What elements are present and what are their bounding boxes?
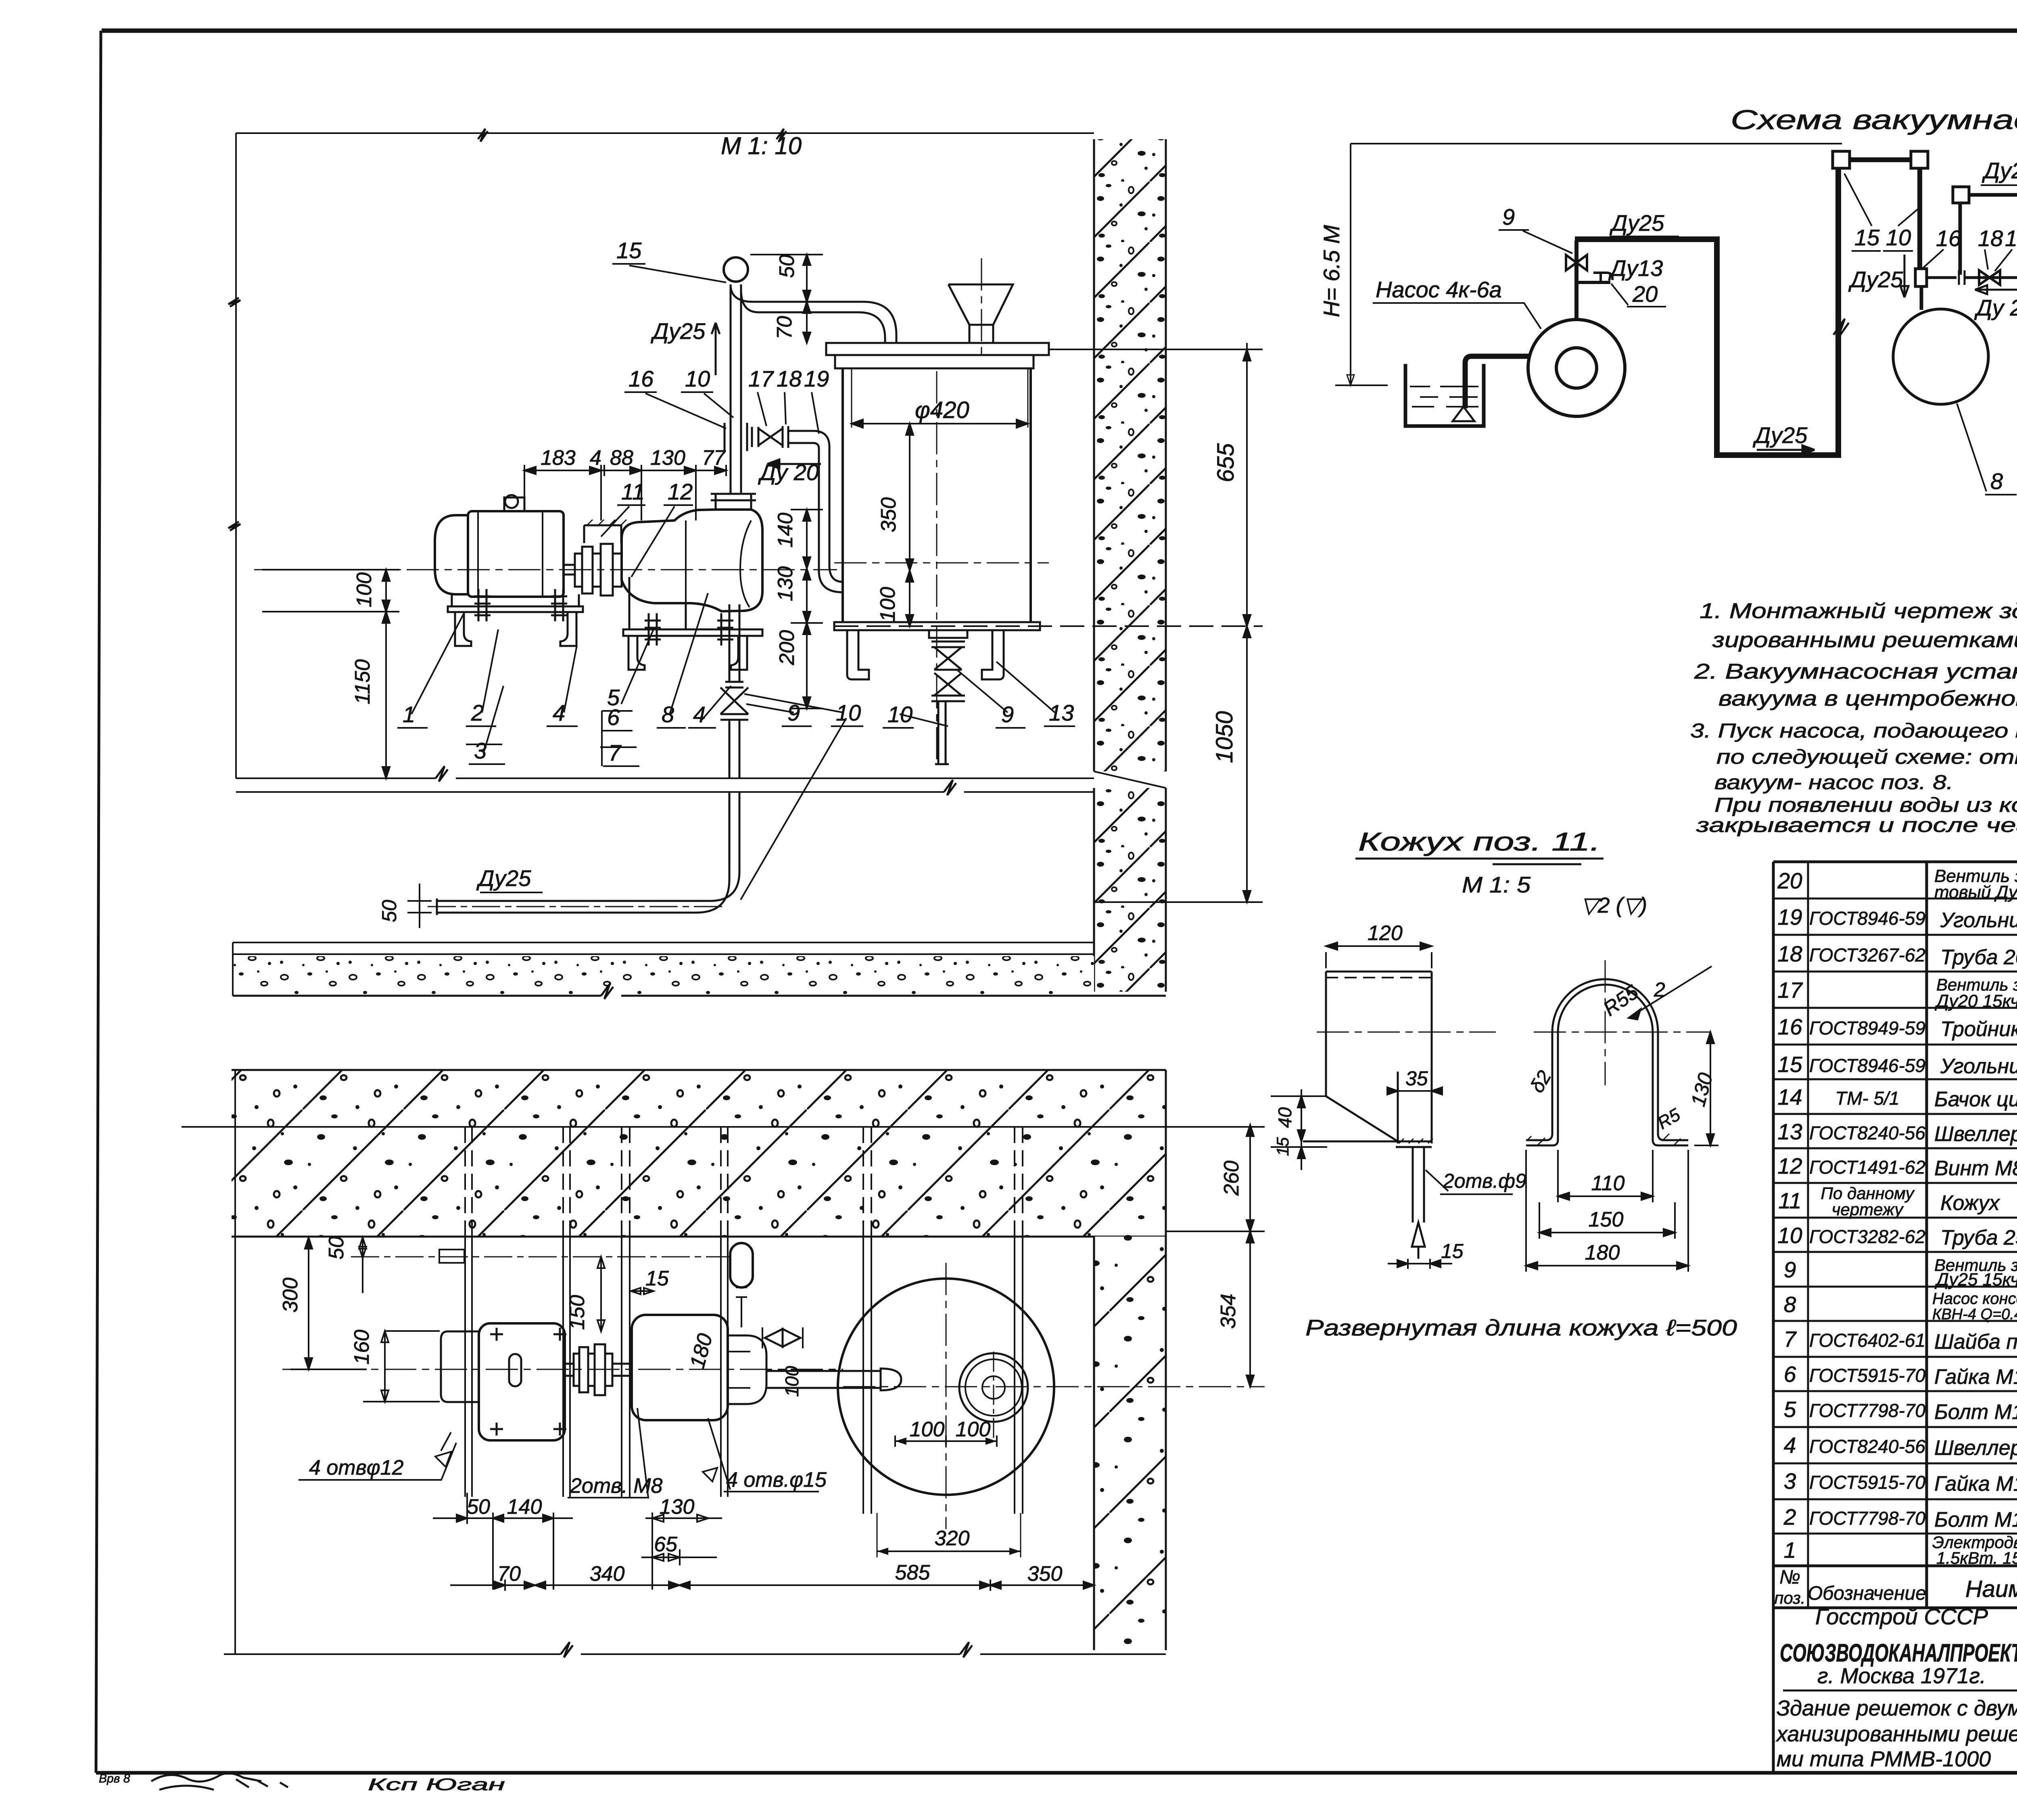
svg-text:3. Пуск насоса, подающего вод: 3. Пуск насоса, подающего воду к гидроэл… [1690, 719, 2017, 742]
svg-text:Ду25: Ду25 [1609, 210, 1664, 236]
svg-text:4 отв.φ15: 4 отв.φ15 [726, 1468, 827, 1492]
svg-text:ГОСТ7798-70: ГОСТ7798-70 [1809, 1508, 1925, 1529]
svg-text:300: 300 [279, 1278, 302, 1313]
vacuum pump 8 circle [1893, 309, 1988, 404]
svg-text:№: № [1779, 1567, 1800, 1588]
title block [1773, 1604, 2017, 1773]
svg-text:100: 100 [956, 1418, 991, 1441]
svg-text:10: 10 [1886, 225, 1911, 250]
svg-text:200: 200 [775, 630, 799, 666]
svg-text:180: 180 [685, 1331, 717, 1371]
electric motor 1 (АО2-22-4) [435, 495, 583, 612]
svg-text:Развернутая длина кожуха ℓ=: Развернутая длина кожуха ℓ=500 [1305, 1315, 1737, 1340]
coupling 12 and cover 11 [564, 520, 626, 596]
dimensions 140 130 200 [791, 510, 823, 708]
valve 9 [1574, 241, 1579, 320]
svg-text:товый Ду15 15кч18к: товый Ду15 15кч18к [1934, 882, 2017, 902]
svg-text:Гайка М12.4.01: Гайка М12.4.01 [1934, 1365, 2017, 1389]
svg-text:Насос 4к-6а: Насос 4к-6а [1376, 277, 1502, 302]
elbow fittings 15 [1833, 151, 1850, 168]
svg-text:50: 50 [775, 255, 799, 278]
drawing boundary dim lines [228, 129, 1094, 778]
dimension H=6.5M [1335, 144, 1842, 385]
labels 16 10 17 18 19 [628, 366, 829, 391]
svg-text:δ2: δ2 [1526, 1067, 1556, 1097]
cover detail (Kozhukh pos.11) [1271, 827, 1737, 1340]
svg-text:50: 50 [325, 1236, 348, 1260]
svg-text:15: 15 [1854, 225, 1880, 250]
svg-text:Насос консольно-вакуумный: Насос консольно-вакуумный [1932, 1290, 2017, 1308]
svg-text:1050: 1050 [1211, 711, 1238, 763]
svg-text:Ксп Юган: Ксп Юган [368, 1775, 505, 1794]
svg-text:320: 320 [935, 1527, 970, 1550]
svg-text:Шайба пружинная 12Н: Шайба пружинная 12Н [1934, 1330, 2017, 1354]
svg-text:по следующей схеме: открываютс: по следующей схеме: открываются вентили … [1716, 746, 2017, 768]
svg-text:Угольник 25: Угольник 25 [1940, 1055, 2017, 1078]
suction pipe 10 with valve 9 wire [428, 604, 748, 915]
svg-text:6: 6 [1784, 1362, 1796, 1387]
svg-text:18: 18 [1978, 226, 2003, 251]
pump Насос 4К-6а circle [1528, 320, 1625, 416]
svg-text:150: 150 [566, 1295, 589, 1330]
svg-text:Госстрой СССР: Госстрой СССР [1815, 1604, 1988, 1629]
svg-text:ГОСТ8240-56: ГОСТ8240-56 [1809, 1122, 1925, 1143]
svg-text:Швеллер N24 ℓ=700: Швеллер N24 ℓ=700 [1934, 1436, 2017, 1460]
discharge riser pipe 10 Ду25 wire [724, 257, 896, 494]
svg-text:655: 655 [1213, 443, 1239, 483]
svg-text:65: 65 [654, 1533, 678, 1556]
svg-text:ТМ- 5/1: ТМ- 5/1 [1835, 1088, 1900, 1109]
svg-text:4: 4 [1784, 1433, 1796, 1458]
floor break lines [236, 766, 1094, 795]
plan wall band (hatched) [232, 1070, 1166, 1237]
svg-text:88: 88 [610, 446, 633, 470]
svg-text:9: 9 [1502, 204, 1515, 230]
svg-text:Ду 20: Ду 20 [1974, 295, 2017, 320]
svg-text:г. Москва 1971г.: г. Москва 1971г. [1817, 1664, 1986, 1688]
dimensions 350 100 tank [906, 424, 913, 626]
svg-text:9: 9 [1001, 702, 1014, 727]
svg-text:7: 7 [1784, 1327, 1797, 1352]
svg-text:150: 150 [1589, 1208, 1624, 1231]
svg-text:9: 9 [1784, 1257, 1796, 1282]
svg-text:Обозначение: Обозначение [1808, 1583, 1926, 1604]
svg-text:вакуум- насос поз. 8.: вакуум- насос поз. 8. [1714, 771, 1953, 794]
svg-text:35: 35 [1405, 1067, 1428, 1090]
svg-text:ГОСТ8946-59: ГОСТ8946-59 [1809, 908, 1925, 929]
machine axis centerline [254, 569, 837, 570]
svg-text:ГОСТ5915-70: ГОСТ5915-70 [1809, 1472, 1925, 1493]
svg-text:183: 183 [541, 446, 576, 470]
svg-text:18: 18 [777, 366, 802, 391]
machine axis centerline [282, 1369, 843, 1370]
svg-text:8: 8 [1990, 468, 2003, 494]
svg-text:17: 17 [2005, 226, 2017, 251]
svg-text:6: 6 [607, 704, 620, 730]
svg-text:2: 2 [1783, 1504, 1796, 1530]
dimension row 183 4 88 130 77 [524, 465, 726, 520]
svg-text:φ420: φ420 [915, 397, 969, 423]
wall section (hatched concrete) [1094, 139, 1166, 992]
svg-text:20: 20 [1632, 281, 1658, 307]
svg-text:ГОСТ3282-62: ГОСТ3282-62 [1809, 1226, 1925, 1247]
svg-text:Труба 20: Труба 20 [1940, 946, 2017, 969]
anchor plate and pipe axis [439, 1250, 464, 1263]
svg-text:160: 160 [350, 1330, 374, 1365]
svg-text:77: 77 [702, 446, 726, 470]
svg-text:поз.: поз. [1774, 1588, 1805, 1607]
svg-text:585: 585 [895, 1561, 931, 1584]
tee 16 [1915, 269, 1927, 286]
valve 17 [1979, 270, 2000, 285]
svg-text:Врв 8: Врв 8 [99, 1772, 130, 1785]
circulation tank 14 in plan [838, 1279, 1054, 1495]
svg-text:Ду13: Ду13 [1608, 255, 1663, 281]
dimension 50 and 70 [750, 255, 823, 343]
table header texts [1774, 1567, 2017, 1609]
bolts 2 3 motor hold-down [474, 589, 567, 621]
svg-text:Схема вакуумнасосной установ: Схема вакуумнасосной установки [1731, 104, 2017, 135]
svg-text:2отв.ф9: 2отв.ф9 [1443, 1170, 1526, 1192]
svg-text:Ду25: Ду25 [1848, 267, 1903, 292]
pipe run with valve 17 wire [1965, 276, 2017, 279]
svg-text:Н= 6.5 М: Н= 6.5 М [1319, 225, 1344, 317]
svg-text:70: 70 [497, 1562, 521, 1586]
svg-text:Гайка М10.4.01: Гайка М10.4.01 [1934, 1472, 2017, 1496]
cover 11 omega cross-section [1526, 979, 1688, 1146]
svg-text:Ду25: Ду25 [476, 865, 531, 891]
svg-text:Ду25: Ду25 [1752, 422, 1808, 448]
svg-text:ГОСТ8946-59: ГОСТ8946-59 [1809, 1055, 1925, 1076]
svg-text:40: 40 [1274, 1107, 1295, 1128]
svg-text:100: 100 [353, 573, 376, 608]
svg-text:13: 13 [1777, 1119, 1802, 1144]
svg-text:260: 260 [1220, 1161, 1243, 1196]
riser pipe 10 cap in plan [730, 1243, 753, 1287]
pipe Ду25 main run wire [1575, 158, 1838, 455]
svg-text:130: 130 [650, 446, 685, 470]
electric motor 1 in plan [441, 1323, 565, 1440]
svg-text:4: 4 [693, 702, 706, 727]
funnel on tank 14 [948, 284, 1013, 343]
svg-text:19: 19 [1777, 905, 1802, 930]
svg-text:14: 14 [1777, 1084, 1802, 1110]
svg-text:Болт М12х40.5.6.01: Болт М12х40.5.6.01 [1934, 1400, 2017, 1424]
svg-text:15: 15 [1441, 1240, 1464, 1262]
right dimension line 655 / 1050 [834, 343, 1263, 902]
svg-text:15: 15 [1777, 1052, 1802, 1077]
svg-text:16: 16 [628, 366, 654, 391]
svg-text:чертежу: чертежу [1832, 1200, 1904, 1219]
svg-text:ГОСТ8949-59: ГОСТ8949-59 [1809, 1018, 1925, 1039]
svg-text:▽2 (▽): ▽2 (▽) [1581, 893, 1647, 917]
svg-text:340: 340 [590, 1562, 625, 1586]
support channel 4 under pump [628, 636, 747, 670]
svg-text:При появлении воды из контро: При появлении воды из контрольного венти… [1714, 794, 2017, 816]
position labels 1 2 3 4 5 6 7 8 9 10 13 with leaders [403, 685, 1074, 765]
svg-text:20: 20 [1777, 868, 1802, 893]
svg-text:Угольник 20: Угольник 20 [1940, 909, 2017, 932]
svg-text:7: 7 [608, 740, 622, 765]
svg-text:350: 350 [1027, 1562, 1063, 1586]
svg-text:М 1: 5: М 1: 5 [1462, 872, 1531, 897]
svg-text:10: 10 [685, 366, 710, 391]
svg-text:1. Монтажный чертеж здания ре: 1. Монтажный чертеж здания решеток с дву… [1700, 599, 2017, 623]
tee 16 and valve 17 fittings on riser [725, 423, 843, 592]
bolts 5 6 7 pump hold-down [645, 613, 733, 646]
svg-text:11: 11 [621, 479, 645, 504]
dimensions 100 1150 [262, 570, 399, 778]
svg-text:Кожух: Кожух [1940, 1191, 2000, 1215]
svg-text:12: 12 [668, 479, 693, 504]
vacuum pump 8 in plan [632, 1315, 901, 1420]
svg-text:Наименование: Наименование [1965, 1576, 2017, 1602]
svg-text:140: 140 [774, 513, 797, 548]
svg-text:16: 16 [1777, 1014, 1802, 1039]
signatures [99, 1772, 505, 1794]
bypass loop pipe Ду25 wire [1959, 202, 1962, 275]
svg-text:закрывается и после чего вклю: закрывается и после чего включается осно… [1696, 814, 2017, 836]
svg-text:5: 5 [1784, 1397, 1796, 1422]
svg-text:354: 354 [1217, 1294, 1240, 1329]
control tap 20 Ду13 [1579, 281, 1610, 284]
schematic position labels and leaders [1373, 158, 2017, 495]
svg-text:13: 13 [1049, 700, 1074, 725]
notes text [1690, 599, 2017, 861]
svg-text:СОЮЗВОДОКАНАЛПРОЕКТ: СОЮЗВОДОКАНАЛПРОЕКТ [1780, 1639, 2017, 1667]
svg-text:4: 4 [553, 700, 565, 725]
svg-text:2. Вакуумнасосная установка: 2. Вакуумнасосная установка предназначен… [1694, 660, 2017, 683]
svg-text:Винт М8х12-011: Винт М8х12-011 [1934, 1157, 2017, 1180]
svg-text:2: 2 [1654, 978, 1665, 1001]
svg-text:2: 2 [471, 700, 484, 725]
svg-text:Кожух поз. 11.: Кожух поз. 11. [1358, 827, 1600, 856]
svg-text:Ду20 15кч18к: Ду20 15кч18к [1934, 991, 2017, 1011]
svg-text:Труба 25: Труба 25 [1940, 1226, 2017, 1250]
svg-text:ми типа РММВ-1000: ми типа РММВ-1000 [1777, 1747, 1991, 1771]
tank centerlines [936, 371, 938, 764]
svg-text:130: 130 [774, 566, 797, 602]
suction strainer [1453, 407, 1474, 421]
svg-text:130: 130 [1687, 1070, 1717, 1109]
svg-text:120: 120 [1368, 921, 1403, 945]
table row texts [1774, 866, 2017, 1609]
svg-text:3: 3 [1784, 1469, 1796, 1494]
svg-text:17: 17 [1777, 978, 1803, 1003]
svg-text:ГОСТ7798-70: ГОСТ7798-70 [1809, 1400, 1925, 1421]
plan right wall column (hatched) [1094, 1237, 1166, 1650]
svg-text:Ду25: Ду25 [1982, 158, 2017, 183]
tank drain valves 9 with pipe 10 [929, 630, 967, 764]
coupling 12 in plan [565, 1344, 632, 1395]
svg-text:Ду25 15кч18к: Ду25 15кч18к [1934, 1270, 2017, 1289]
svg-text:140: 140 [507, 1495, 542, 1519]
vacuum pump 8 КВН-4 body [622, 494, 762, 636]
svg-text:12: 12 [1777, 1153, 1802, 1179]
svg-text:Тройник 25х20: Тройник 25х20 [1940, 1018, 2017, 1041]
svg-text:11: 11 [1778, 1188, 1801, 1213]
svg-text:ГОСТ3267-62: ГОСТ3267-62 [1809, 944, 1925, 965]
svg-text:Ду25: Ду25 [650, 318, 706, 344]
valve 9 in plan [765, 1329, 800, 1347]
svg-text:350: 350 [877, 497, 900, 533]
svg-text:15: 15 [616, 238, 642, 263]
svg-text:ГОСТ8240-56: ГОСТ8240-56 [1809, 1436, 1925, 1457]
svg-text:М 1: 10: М 1: 10 [721, 132, 802, 159]
svg-text:17: 17 [748, 366, 774, 391]
basement floor slab [233, 942, 1166, 999]
svg-text:ГОСТ6402-61: ГОСТ6402-61 [1809, 1330, 1925, 1351]
svg-text:50: 50 [378, 900, 401, 922]
svg-text:16: 16 [1936, 226, 1961, 251]
svg-text:1: 1 [403, 702, 415, 727]
suction pipe wire [1465, 356, 1529, 408]
svg-text:8: 8 [1784, 1292, 1796, 1317]
svg-text:180: 180 [1585, 1241, 1620, 1264]
plan boundary lines [234, 1070, 236, 1654]
svg-text:вакуума в центробежном насос: вакуума в центробежном насосе 4К-6а пере… [1718, 687, 2017, 710]
svg-text:15: 15 [645, 1267, 669, 1290]
svg-text:зированными решетками типа Р: зированными решетками типа РММВ-1000 см.… [1712, 628, 2017, 652]
svg-text:10: 10 [1777, 1223, 1802, 1248]
svg-text:100: 100 [876, 587, 900, 622]
svg-text:130: 130 [660, 1495, 695, 1519]
svg-text:19: 19 [804, 366, 829, 391]
svg-text:1.5кВт. 1500 об/мин: 1.5кВт. 1500 об/мин [1936, 1548, 2017, 1567]
svg-text:70: 70 [773, 316, 796, 339]
svg-text:100: 100 [781, 1366, 802, 1397]
svg-text:100: 100 [910, 1418, 945, 1441]
svg-text:4: 4 [590, 446, 601, 470]
support channel 4 under motor [455, 612, 576, 646]
svg-text:110: 110 [1591, 1172, 1625, 1195]
svg-text:Бачок циркуляционный: Бачок циркуляционный [1934, 1088, 2017, 1111]
svg-text:4 отвφ12: 4 отвφ12 [309, 1456, 404, 1479]
svg-text:50: 50 [467, 1495, 490, 1519]
cover 11 side profile [1303, 972, 1433, 1259]
dimension rows 50 140 130 65 70 340 585 350 [467, 1495, 1062, 1586]
tank legs 13 channel N10 [847, 630, 1004, 679]
svg-text:ГОСТ1491-62: ГОСТ1491-62 [1809, 1157, 1925, 1178]
svg-text:ханизированными решетка: ханизированными решетка [1775, 1722, 2017, 1746]
water sump tank [1405, 364, 1484, 426]
svg-text:Болт М10х30.5.6. 01: Болт М10х30.5.6. 01 [1934, 1508, 2017, 1532]
svg-text:10: 10 [836, 700, 861, 725]
svg-text:1150: 1150 [351, 659, 374, 704]
channels 4 and 13 in plan [465, 1127, 1023, 1514]
svg-text:Здание решеток с двумя ме: Здание решеток с двумя ме [1777, 1696, 2017, 1720]
svg-text:КВН-4 Q=0.4м³/мин n=1450об/мин: КВН-4 Q=0.4м³/мин n=1450об/мин [1932, 1306, 2017, 1323]
svg-text:18: 18 [1777, 941, 1802, 966]
svg-text:ГОСТ5915-70: ГОСТ5915-70 [1809, 1365, 1925, 1386]
svg-text:Швеллер N10 ℓ=900: Швеллер N10 ℓ=900 [1934, 1122, 2017, 1146]
circulation tank 14 [826, 343, 1049, 630]
svg-text:1: 1 [1784, 1538, 1796, 1563]
